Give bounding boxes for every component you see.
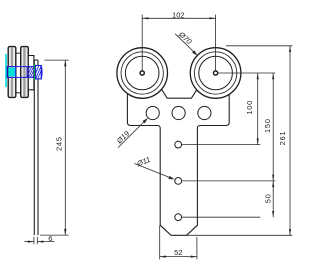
pulley flange left	[8, 47, 16, 98]
holes O19 row	[146, 106, 159, 119]
dim 52	[160, 226, 197, 260]
dimension 6	[24, 237, 54, 244]
svg-text:52: 52	[174, 248, 182, 257]
green washer line	[34, 64, 36, 79]
plate outline	[127, 94, 229, 236]
svg-text:245: 245	[55, 136, 64, 151]
wheel axles (center circles)	[140, 71, 144, 75]
hanger bar (edge view)	[34, 60, 38, 235]
axle bolt (blue, hatched)	[7, 67, 35, 78]
svg-text:50: 50	[263, 194, 272, 204]
right extension lines	[182, 46, 292, 236]
cyan shaft line	[5, 54, 7, 87]
pulley flange right	[21, 47, 29, 98]
svg-text:261: 261	[278, 131, 287, 146]
svg-text:150: 150	[263, 118, 272, 133]
wheel right	[190, 48, 241, 99]
svg-text:100: 100	[245, 100, 254, 115]
dim 150	[272, 73, 274, 181]
dimension 245	[40, 60, 69, 235]
dimension 102 extension lines	[142, 15, 215, 71]
nut (blue, hatched)	[36, 66, 42, 79]
dim 50	[272, 181, 274, 217]
dim 100	[257, 73, 259, 145]
svg-text:6: 6	[48, 234, 52, 243]
leader O19	[114, 118, 148, 148]
plate tab between wheels	[160, 87, 199, 99]
wheel left	[117, 48, 168, 99]
leader O70	[175, 29, 197, 55]
hub spacer	[28, 56, 34, 90]
pulley groove	[16, 53, 21, 93]
svg-text:102: 102	[172, 11, 185, 20]
column holes O11	[175, 141, 182, 148]
leader O11	[135, 155, 175, 180]
dim 261	[289, 46, 291, 236]
